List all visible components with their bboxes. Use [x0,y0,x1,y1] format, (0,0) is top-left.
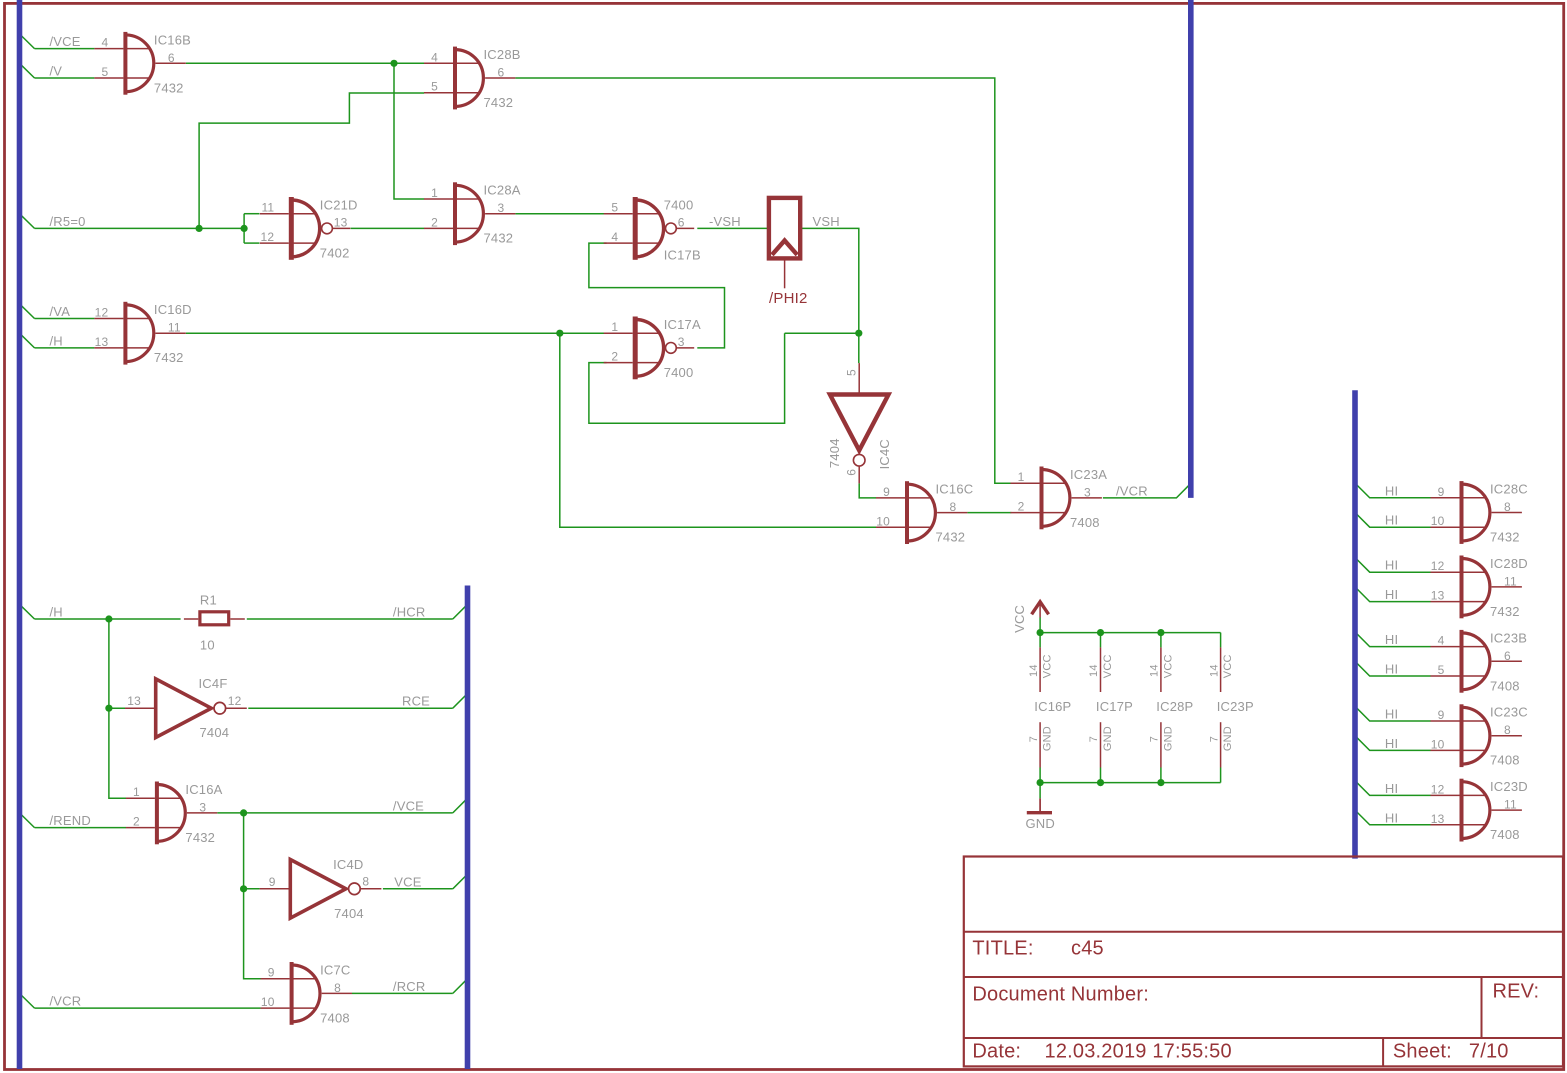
svg-text:12: 12 [228,694,242,708]
svg-text:IC23A: IC23A [1070,467,1107,482]
svg-text:VCC: VCC [1042,654,1054,678]
svg-text:9: 9 [883,485,890,499]
svg-text:13: 13 [334,216,348,230]
svg-text:IC21D: IC21D [320,197,358,212]
svg-text:13: 13 [1431,589,1445,603]
svg-text:12: 12 [261,230,275,244]
svg-text:/VCR: /VCR [50,994,82,1009]
svg-text:R1: R1 [200,592,217,607]
svg-text:10: 10 [200,637,215,652]
svg-text:7432: 7432 [1490,530,1520,545]
svg-text:4: 4 [611,230,618,244]
svg-text:VCC: VCC [1163,654,1175,678]
svg-text:7432: 7432 [1490,604,1520,619]
svg-text:IC16A: IC16A [185,782,222,797]
svg-text:7432: 7432 [154,350,184,365]
svg-text:IC16P: IC16P [1034,699,1071,714]
svg-text:7: 7 [1088,736,1100,742]
svg-text:GND: GND [1026,816,1056,831]
svg-text:GND: GND [1222,726,1234,751]
svg-text:c45: c45 [1071,938,1104,960]
svg-text:7432: 7432 [484,95,514,110]
svg-text:/RCR: /RCR [393,979,426,994]
svg-text:2: 2 [1018,500,1025,514]
svg-text:4: 4 [1438,634,1445,648]
svg-text:IC23C: IC23C [1490,705,1528,720]
svg-text:10: 10 [876,514,890,528]
svg-text:10: 10 [1431,514,1445,528]
svg-text:12.03.2019 17:55:50: 12.03.2019 17:55:50 [1045,1041,1232,1063]
svg-text:GND: GND [1163,726,1175,751]
svg-text:6: 6 [498,66,505,80]
svg-text:7408: 7408 [320,1010,350,1025]
svg-text:IC16C: IC16C [936,482,974,497]
svg-text:10: 10 [261,995,275,1009]
svg-text:/VCE: /VCE [393,798,424,813]
svg-text:7: 7 [1028,736,1040,742]
svg-text:4: 4 [102,36,109,50]
svg-text:IC4D: IC4D [333,857,363,872]
svg-text:IC23P: IC23P [1217,699,1254,714]
svg-text:8: 8 [1504,500,1511,514]
svg-text:IC28P: IC28P [1156,699,1193,714]
svg-text:HI: HI [1385,483,1398,498]
svg-text:VCC: VCC [1222,654,1234,678]
svg-text:6: 6 [1504,649,1511,663]
svg-text:9: 9 [268,966,275,980]
svg-text:REV:: REV: [1493,981,1540,1003]
svg-text:1: 1 [431,186,438,200]
svg-text:11: 11 [261,201,274,215]
svg-text:9: 9 [269,875,276,889]
svg-text:13: 13 [95,335,109,349]
svg-text:8: 8 [334,981,341,995]
svg-text:GND: GND [1102,726,1114,751]
svg-text:IC28B: IC28B [484,47,521,62]
svg-text:/HCR: /HCR [393,605,426,620]
svg-text:IC23B: IC23B [1490,630,1527,645]
svg-text:5: 5 [1438,663,1445,677]
svg-text:14: 14 [1088,664,1100,677]
svg-text:1: 1 [1018,470,1025,484]
svg-text:14: 14 [1149,664,1161,677]
svg-text:3: 3 [199,800,206,814]
svg-text:HI: HI [1385,810,1398,825]
svg-text:7404: 7404 [827,438,842,468]
svg-text:Sheet:: Sheet: [1393,1041,1452,1063]
svg-text:9: 9 [1438,485,1445,499]
svg-text:1: 1 [611,320,618,334]
svg-text:3: 3 [678,335,685,349]
svg-text:Date:: Date: [972,1041,1021,1063]
svg-text:IC7C: IC7C [320,962,350,977]
svg-text:9: 9 [1438,708,1445,722]
svg-text:IC17B: IC17B [664,247,701,262]
svg-text:5: 5 [845,369,859,376]
svg-text:14: 14 [1208,664,1220,677]
svg-text:-VSH: -VSH [709,214,741,229]
svg-text:/VCR: /VCR [1116,483,1148,498]
svg-text:7408: 7408 [1070,515,1100,530]
svg-text:12: 12 [1431,559,1445,573]
svg-text:3: 3 [1084,485,1091,499]
svg-text:7: 7 [1208,736,1220,742]
svg-text:14: 14 [1028,664,1040,677]
svg-text:HI: HI [1385,513,1398,528]
svg-text:VCC: VCC [1012,605,1027,633]
svg-text:3: 3 [498,201,505,215]
svg-text:HI: HI [1385,632,1398,647]
svg-text:7/10: 7/10 [1469,1041,1509,1063]
svg-text:IC28C: IC28C [1490,482,1528,497]
svg-text:/VCE: /VCE [50,34,81,49]
svg-text:RCE: RCE [402,694,430,709]
svg-text:7404: 7404 [200,725,230,740]
svg-text:6: 6 [845,469,859,476]
svg-text:/H: /H [50,605,63,620]
svg-text:7408: 7408 [1490,678,1520,693]
svg-text:HI: HI [1385,558,1398,573]
svg-text:7408: 7408 [1490,827,1520,842]
svg-text:HI: HI [1385,707,1398,722]
svg-text:IC28A: IC28A [484,183,521,198]
svg-text:13: 13 [127,694,141,708]
svg-text:1: 1 [133,785,140,799]
svg-text:HI: HI [1385,736,1398,751]
svg-text:12: 12 [1431,782,1445,796]
svg-text:2: 2 [133,815,140,829]
svg-text:IC4C: IC4C [877,439,892,469]
svg-text:/V: /V [50,63,63,78]
svg-text:7400: 7400 [664,197,694,212]
svg-text:7: 7 [1149,736,1161,742]
svg-text:13: 13 [1431,812,1445,826]
svg-text:5: 5 [431,80,438,94]
svg-text:2: 2 [431,215,438,229]
svg-text:7432: 7432 [185,830,215,845]
svg-text:VCE: VCE [394,874,421,889]
svg-text:7402: 7402 [320,245,350,260]
svg-text:11: 11 [1504,574,1517,588]
svg-text:11: 11 [1504,798,1517,812]
svg-text:8: 8 [950,500,957,514]
svg-text:TITLE:: TITLE: [972,938,1033,960]
svg-text:2: 2 [611,350,618,364]
svg-text:IC16D: IC16D [154,302,192,317]
svg-text:IC16B: IC16B [154,32,191,47]
svg-text:7432: 7432 [936,530,966,545]
svg-text:8: 8 [362,875,369,889]
svg-text:/REND: /REND [50,813,91,828]
svg-text:IC23D: IC23D [1490,779,1528,794]
svg-text:IC17A: IC17A [664,317,701,332]
svg-text:IC17P: IC17P [1096,699,1133,714]
svg-text:6: 6 [678,216,685,230]
svg-text:4: 4 [431,50,438,64]
svg-text:Document Number:: Document Number: [972,984,1149,1006]
svg-text:/H: /H [50,333,63,348]
svg-text:8: 8 [1504,723,1511,737]
svg-text:/PHI2: /PHI2 [769,290,808,307]
svg-text:7408: 7408 [1490,753,1520,768]
svg-text:HI: HI [1385,662,1398,677]
svg-text:6: 6 [168,51,175,65]
svg-text:/R5=0: /R5=0 [50,214,86,229]
svg-text:7432: 7432 [154,80,184,95]
svg-text:7404: 7404 [334,906,364,921]
svg-text:5: 5 [611,201,618,215]
svg-text:HI: HI [1385,781,1398,796]
svg-text:IC4F: IC4F [199,676,228,691]
svg-text:7400: 7400 [664,365,694,380]
svg-text:HI: HI [1385,587,1398,602]
svg-text:12: 12 [95,306,109,320]
svg-text:IC28D: IC28D [1490,556,1528,571]
svg-text:5: 5 [102,65,109,79]
svg-text:GND: GND [1042,726,1054,751]
svg-text:/VA: /VA [50,304,71,319]
svg-text:VSH: VSH [813,214,840,229]
svg-text:10: 10 [1431,737,1445,751]
svg-text:7432: 7432 [484,231,514,246]
svg-text:11: 11 [168,321,181,335]
svg-text:VCC: VCC [1102,654,1114,678]
